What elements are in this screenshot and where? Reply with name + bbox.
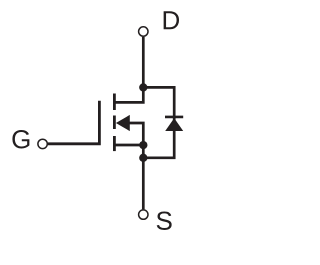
wire body arrow to source node xyxy=(129,123,143,145)
wire drain: from terminal D down then left to MOSFET drain stub xyxy=(113,37,143,103)
label S xyxy=(157,212,172,230)
terminal D circle xyxy=(139,27,148,36)
node source junction (diode anode tie) xyxy=(139,154,147,162)
label D xyxy=(164,11,179,29)
wire body-diode branch: right from drain node, down through diode, left to source node xyxy=(143,87,174,157)
wire source stub: MOSFET source to source node xyxy=(113,144,143,147)
wire source vertical: source node down to terminal S xyxy=(142,145,145,209)
MOSFET Q1 channel drain segment xyxy=(113,94,116,111)
node drain junction xyxy=(139,83,147,91)
label G xyxy=(12,130,29,148)
node source junction (body tie) xyxy=(139,141,147,149)
terminal G circle xyxy=(38,139,47,148)
MOSFET Q1 channel source segment xyxy=(113,136,116,151)
terminal S circle xyxy=(139,210,148,219)
MOSFET Q1 body arrow (points left into channel) xyxy=(116,115,130,131)
body diode D1 cathode bar xyxy=(165,116,183,119)
body diode D1 triangle (anode, pointing up) xyxy=(165,118,183,131)
MOSFET Q1 channel body segment xyxy=(113,116,116,130)
wire gate: from terminal G right then up (gate electrode bar) xyxy=(48,101,100,144)
